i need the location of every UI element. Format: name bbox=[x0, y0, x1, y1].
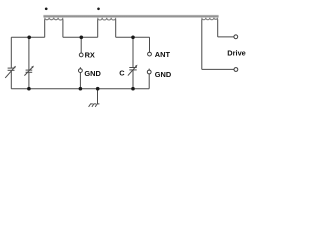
terminal GND left bbox=[79, 69, 83, 73]
junction dot C2 top bbox=[27, 36, 31, 40]
junction dot C2 bottom bbox=[27, 87, 31, 91]
wire L2 right terminal bbox=[115, 19, 117, 37]
junction dot ground bbox=[96, 87, 100, 91]
wire L1 left terminal bbox=[44, 19, 46, 37]
svg-text:GND: GND bbox=[155, 70, 172, 79]
wire L3 right terminal down bbox=[217, 19, 219, 37]
ground symbol bbox=[89, 104, 100, 107]
wire branch C3 upper bbox=[132, 37, 134, 67]
svg-text:Drive: Drive bbox=[227, 49, 246, 58]
wire GND right riser bbox=[148, 74, 150, 89]
wire branch C2 upper bbox=[28, 37, 30, 70]
terminal RX bbox=[79, 53, 83, 57]
transformer core T1 bbox=[43, 15, 218, 18]
wire ANT drop bbox=[149, 37, 151, 52]
wire top bus right segment bbox=[116, 36, 150, 38]
svg-text:ANT: ANT bbox=[155, 50, 171, 59]
winding L3 (drive) bbox=[202, 18, 218, 20]
terminal GND right bbox=[147, 70, 151, 74]
wire drive bottom horizontal bbox=[202, 68, 234, 70]
junction dot RX bbox=[80, 36, 84, 40]
terminal ANT bbox=[148, 52, 152, 56]
wire GND left stub bbox=[79, 67, 81, 69]
variable capacitor C2 plates bbox=[26, 69, 33, 71]
wire L1 right terminal bbox=[62, 19, 64, 37]
wire drive top horizontal bbox=[218, 36, 234, 38]
wire L3 left terminal down bbox=[201, 19, 203, 69]
terminal Drive top bbox=[234, 35, 238, 39]
wire bottom bus bbox=[11, 88, 149, 90]
variable capacitor C3 plates bbox=[129, 67, 136, 69]
phase dot winding L1 bbox=[45, 7, 48, 10]
variable capacitor C2 arrow bbox=[24, 67, 33, 76]
wire top bus left segment bbox=[11, 36, 44, 38]
svg-text:RX: RX bbox=[85, 51, 95, 60]
winding L1 bbox=[45, 18, 63, 20]
phase dot winding L2 bbox=[97, 8, 100, 11]
wire GND right stub bbox=[148, 69, 150, 71]
wire RX stem bbox=[80, 37, 82, 53]
wire left branch C1 upper bbox=[10, 37, 12, 68]
variable capacitor C1 arrow bbox=[5, 67, 15, 78]
wire branch C3 lower bbox=[132, 70, 134, 89]
junction dot C3 bottom bbox=[131, 87, 135, 91]
svg-text:C: C bbox=[119, 68, 125, 77]
svg-text:GND: GND bbox=[84, 69, 101, 78]
wire top bus middle segment bbox=[63, 36, 98, 38]
wire left branch C1 lower bbox=[10, 70, 12, 88]
terminal Drive bottom bbox=[234, 68, 238, 72]
variable capacitor C3 arrow bbox=[128, 66, 137, 76]
junction dot C3 top bbox=[131, 36, 135, 40]
wire ground stem bbox=[97, 89, 99, 104]
junction dot GND left bbox=[79, 87, 83, 91]
wire branch C2 lower bbox=[28, 72, 30, 88]
wire L2 left terminal bbox=[97, 19, 99, 37]
winding L2 bbox=[98, 18, 116, 20]
wire GND left stem bbox=[79, 73, 81, 89]
variable capacitor C1 plates bbox=[8, 67, 15, 69]
